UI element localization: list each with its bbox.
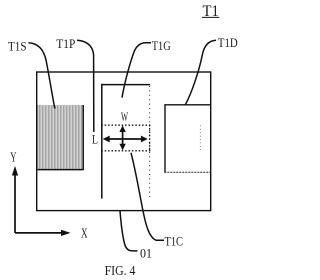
svg-text:T1C: T1C <box>165 234 184 249</box>
svg-text:W: W <box>121 109 128 124</box>
svg-text:T1D: T1D <box>218 35 238 50</box>
svg-text:01: 01 <box>140 245 152 260</box>
svg-text:L: L <box>92 132 98 147</box>
svg-text:T1G: T1G <box>152 38 171 53</box>
svg-text:X: X <box>81 226 88 241</box>
svg-text:T1S: T1S <box>8 39 27 54</box>
svg-text:T1P: T1P <box>56 36 75 51</box>
svg-text:FIG. 4: FIG. 4 <box>105 264 136 279</box>
svg-text:Y: Y <box>10 150 16 165</box>
